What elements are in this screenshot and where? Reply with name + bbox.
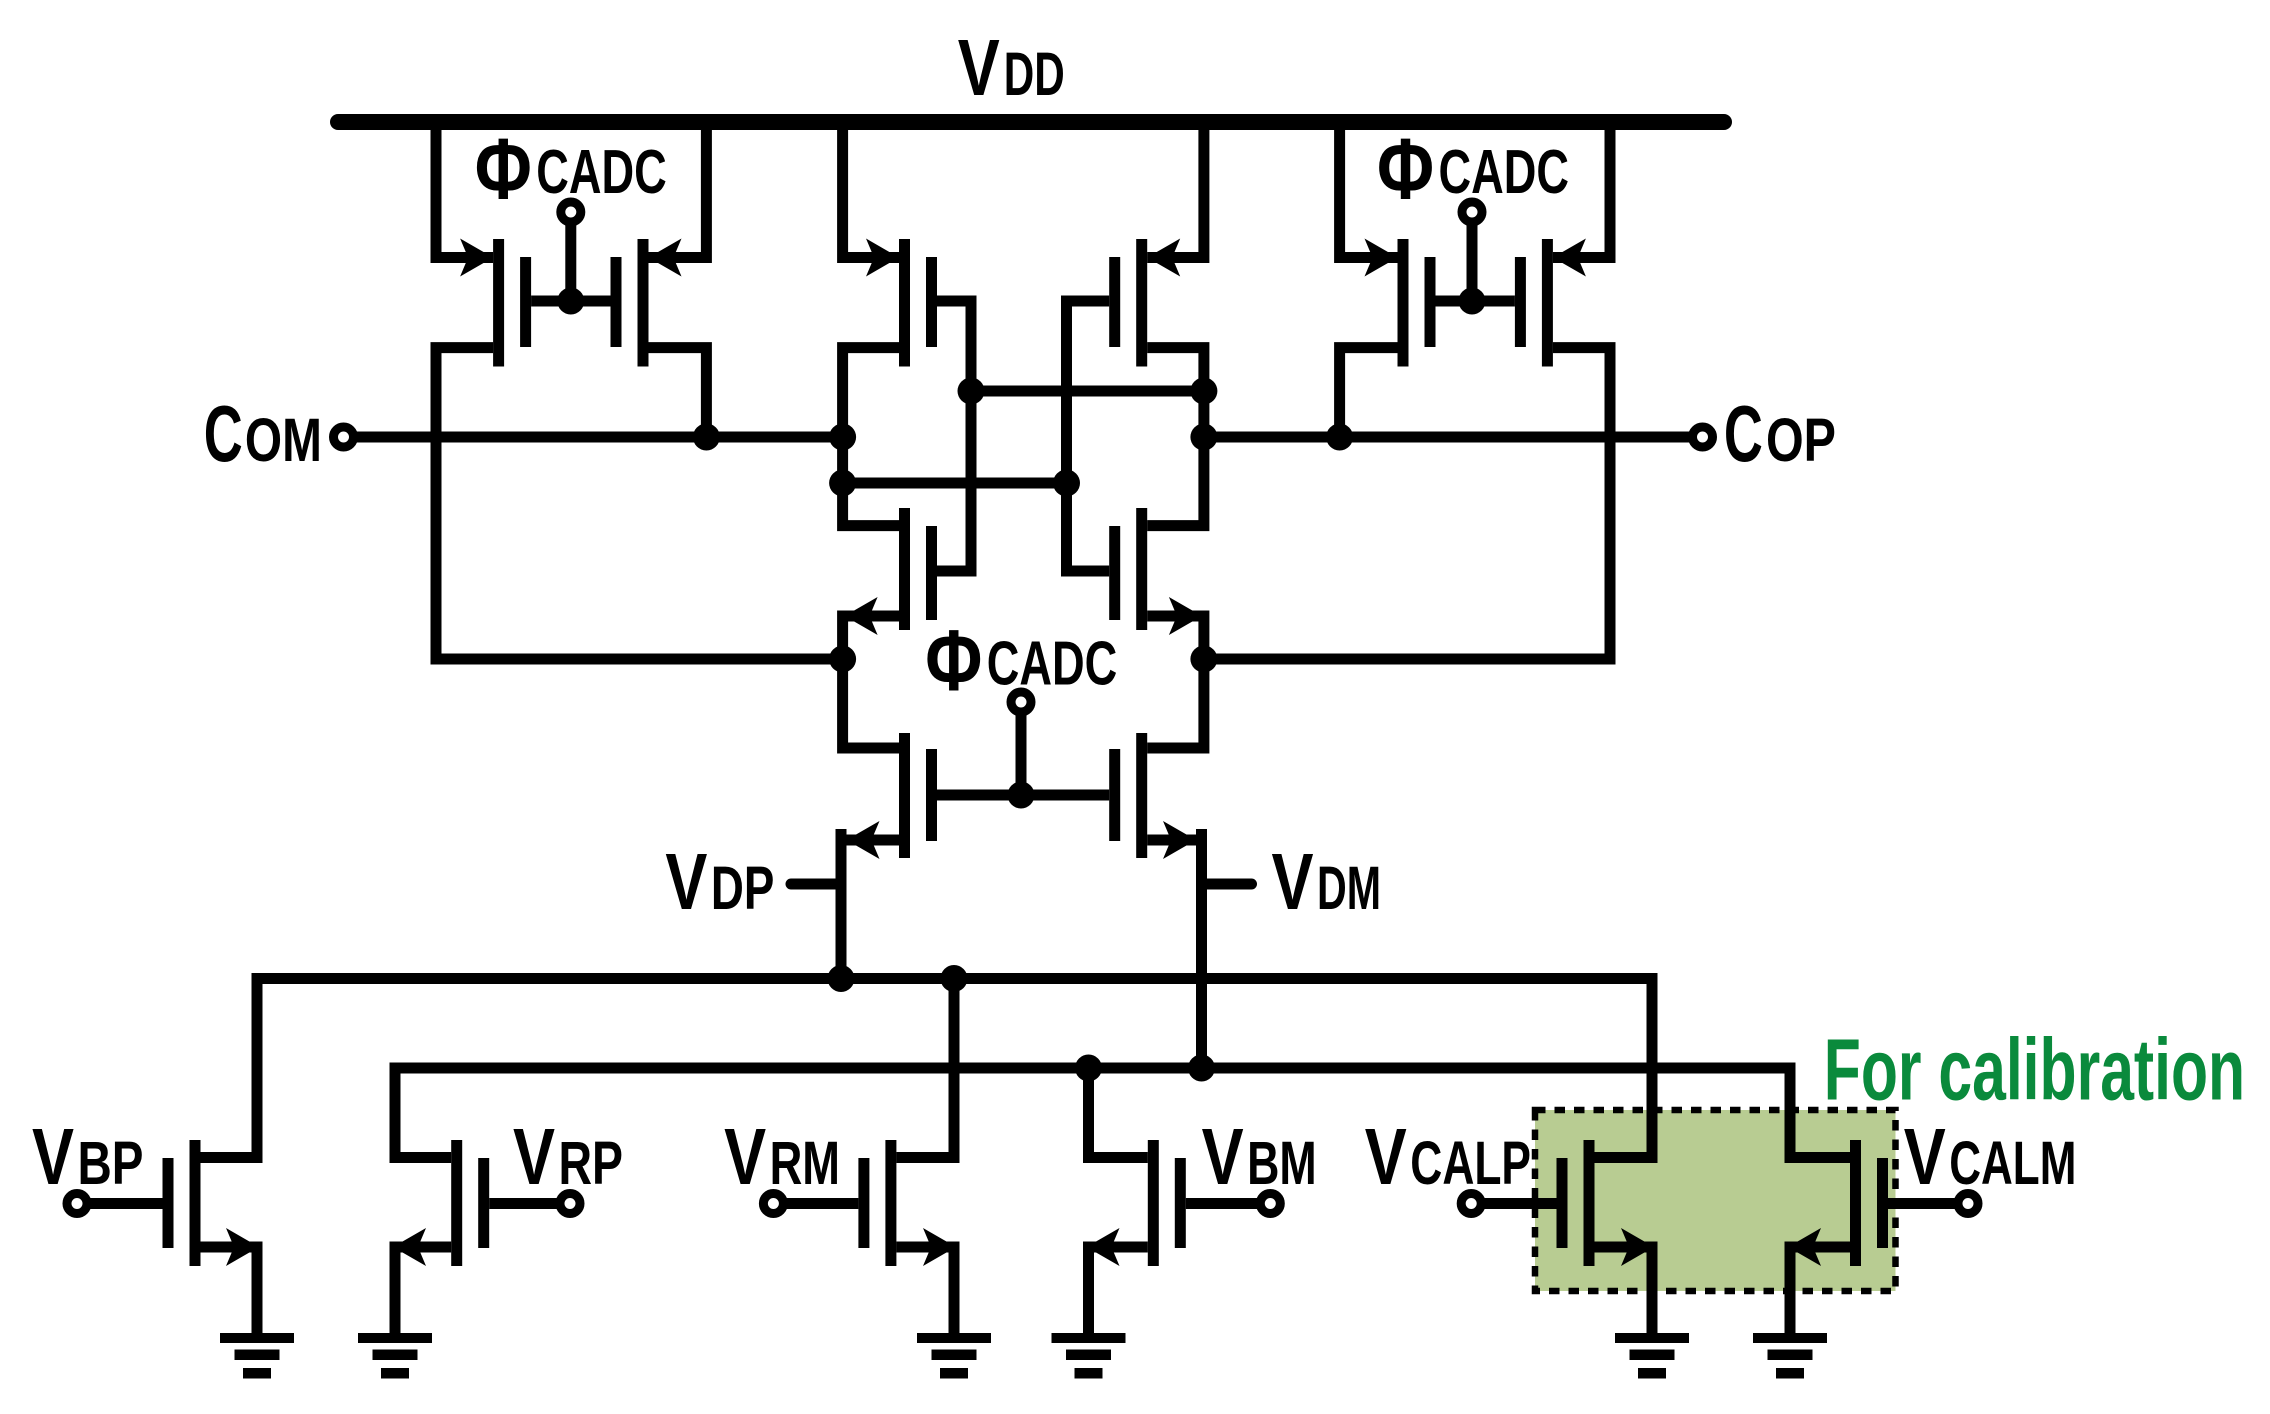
svg-text:RP: RP bbox=[559, 1129, 624, 1197]
svg-text:CADC: CADC bbox=[987, 630, 1118, 699]
svg-text:DD: DD bbox=[1004, 40, 1065, 108]
svg-text:V: V bbox=[32, 1112, 74, 1201]
svg-text:OP: OP bbox=[1766, 406, 1836, 474]
svg-text:CALM: CALM bbox=[1949, 1129, 2076, 1197]
svg-text:DM: DM bbox=[1317, 854, 1381, 922]
svg-text:BP: BP bbox=[78, 1129, 144, 1197]
svg-text:V: V bbox=[513, 1112, 555, 1201]
svg-text:C: C bbox=[1724, 389, 1763, 478]
svg-text:RM: RM bbox=[770, 1129, 840, 1197]
svg-text:C: C bbox=[204, 389, 243, 478]
svg-text:Φ: Φ bbox=[925, 613, 982, 709]
svg-text:V: V bbox=[1365, 1112, 1407, 1201]
svg-text:V: V bbox=[1202, 1112, 1244, 1201]
svg-text:V: V bbox=[958, 23, 1000, 112]
svg-text:Φ: Φ bbox=[475, 121, 532, 217]
svg-text:For calibration: For calibration bbox=[1824, 1022, 2245, 1119]
svg-text:V: V bbox=[724, 1112, 766, 1201]
svg-text:BM: BM bbox=[1247, 1129, 1317, 1197]
svg-text:CALP: CALP bbox=[1410, 1129, 1531, 1197]
svg-text:DP: DP bbox=[711, 854, 775, 922]
svg-text:V: V bbox=[1272, 837, 1314, 926]
svg-text:OM: OM bbox=[245, 406, 322, 474]
svg-text:CADC: CADC bbox=[536, 138, 667, 207]
svg-text:Φ: Φ bbox=[1377, 121, 1434, 217]
svg-text:V: V bbox=[665, 837, 707, 926]
svg-text:V: V bbox=[1904, 1112, 1946, 1201]
svg-text:CADC: CADC bbox=[1439, 138, 1570, 207]
